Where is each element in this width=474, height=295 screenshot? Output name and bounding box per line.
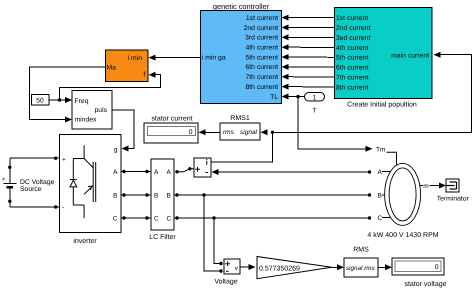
svg-text:+: + [2, 177, 6, 183]
svg-text:1: 1 [313, 95, 317, 102]
svg-text:T: T [312, 108, 316, 115]
svg-text:inverter: inverter [73, 237, 97, 245]
wire phase C to motor [174, 216, 371, 219]
inport T [305, 93, 325, 115]
svg-text:Voltage: Voltage [214, 278, 237, 286]
svg-text:6th current: 6th current [336, 65, 369, 72]
wire T to TL [282, 94, 305, 100]
wire 7th current [282, 74, 335, 80]
block Terminator [437, 179, 470, 202]
subsystem genetic controller [201, 2, 282, 104]
svg-text:Ma: Ma [107, 64, 117, 71]
svg-text:signal: signal [240, 129, 258, 136]
wire i to junction [211, 132, 273, 162]
wire 50 to f loop [60, 72, 161, 100]
svg-text:5th current: 5th current [246, 54, 279, 61]
wire 50 to Freq [49, 97, 72, 103]
svg-text:5th current: 5th current [336, 55, 369, 62]
wire main current [273, 52, 472, 133]
svg-text:C: C [167, 216, 172, 223]
svg-text:B: B [154, 193, 158, 200]
wire 8th current [282, 84, 335, 90]
svg-text:Terminator: Terminator [437, 195, 470, 202]
svg-text:3rd current: 3rd current [245, 35, 278, 42]
wire puls to g [112, 110, 134, 152]
wire gain to RMS [332, 264, 344, 270]
wire 6th current [282, 64, 335, 70]
svg-text:TL: TL [270, 94, 278, 101]
svg-text:C: C [113, 216, 118, 223]
svg-text:6th current: 6th current [246, 64, 279, 71]
svg-text:RMS: RMS [353, 247, 369, 254]
svg-text:signal rms: signal rms [346, 265, 376, 272]
wire v to gain [240, 264, 256, 270]
wire Ma to mindex [29, 67, 105, 123]
wire C tap to voltage + [214, 218, 223, 265]
svg-text:rms: rms [223, 129, 235, 136]
svg-text:C: C [154, 216, 159, 223]
svg-text:f: f [143, 71, 145, 78]
wire inverter B to LC B [121, 193, 151, 196]
svg-text:B: B [167, 193, 171, 200]
block RMS1 [220, 115, 260, 140]
wire into RMS1 signal [261, 129, 275, 135]
svg-text:1st current: 1st current [246, 15, 278, 22]
svg-text:+: + [62, 157, 66, 164]
inverter icon diode [70, 145, 84, 218]
svg-text:g: g [114, 146, 118, 153]
display stator voltage [392, 258, 447, 288]
svg-text:1st current: 1st current [336, 15, 368, 22]
wire phase A to motor [212, 169, 372, 175]
node Tm label [376, 147, 397, 165]
svg-text:stator current: stator current [151, 116, 192, 123]
wire i min ga to i min [149, 55, 202, 61]
svg-text:m: m [423, 183, 428, 190]
svg-text:Freq: Freq [75, 98, 89, 105]
block LC Filter [149, 159, 176, 241]
svg-text:0: 0 [189, 129, 193, 136]
wire 5th current [282, 54, 335, 60]
svg-text:8th current: 8th current [336, 85, 369, 92]
svg-text:50: 50 [36, 98, 44, 105]
block PWM Freq [72, 91, 112, 130]
wire T down to Tm [298, 97, 373, 152]
svg-text:7th current: 7th current [336, 75, 369, 82]
current measurement block [194, 158, 211, 177]
svg-text:A: A [378, 169, 383, 176]
svg-text:stator voltage: stator voltage [404, 280, 446, 288]
svg-text:-: - [62, 204, 64, 211]
svg-text:0.577350269: 0.577350269 [259, 266, 300, 273]
svg-text:3ed current: 3ed current [336, 35, 370, 42]
wire 2nd current [282, 25, 335, 31]
svg-text:Tm: Tm [376, 147, 385, 154]
svg-text:A: A [167, 169, 172, 176]
svg-text:A: A [154, 169, 159, 176]
svg-text:B: B [113, 193, 117, 200]
gain 0.577350269 [257, 257, 332, 279]
svg-text:i min: i min [128, 55, 143, 62]
wire RMS1 out to display [199, 129, 221, 135]
svg-text:8th current: 8th current [246, 84, 279, 91]
svg-text:0: 0 [435, 264, 439, 271]
svg-text:C: C [378, 215, 383, 222]
svg-text:puls: puls [95, 107, 108, 114]
svg-text:4th current: 4th current [246, 45, 279, 52]
svg-text:RMS1: RMS1 [230, 115, 250, 122]
constant 50 [32, 95, 50, 106]
wire m to Terminator [430, 183, 447, 189]
motor 4kW [367, 163, 438, 238]
DC voltage source [2, 157, 60, 209]
voltage measurement block [214, 259, 240, 286]
svg-text:Source: Source [20, 186, 42, 193]
wire inverter A to LC A [121, 170, 151, 173]
svg-text:LC Filter: LC Filter [149, 233, 176, 241]
subsystem Create Initial popultion [335, 8, 433, 109]
svg-text:4th current: 4th current [336, 45, 369, 52]
svg-text:7th current: 7th current [246, 74, 279, 81]
display stator current [144, 116, 198, 144]
wire 3rd current [282, 34, 335, 40]
svg-text:genetic controller: genetic controller [213, 2, 270, 11]
wire phase B to motor [174, 193, 371, 196]
block RMS [344, 247, 378, 278]
block inverter [60, 135, 122, 246]
wire B tap to voltage - [204, 195, 223, 273]
wire RMS to display [378, 264, 392, 270]
inverter icon IGBT [84, 159, 96, 203]
block i min (orange) [106, 50, 149, 82]
svg-text:main current: main current [391, 52, 429, 59]
svg-text:2nd current: 2nd current [336, 25, 370, 32]
wire inverter C to LC C [121, 216, 151, 219]
wire 1st current [282, 15, 335, 21]
svg-text:2nd current: 2nd current [244, 25, 278, 32]
svg-text:Create Initial popultion: Create Initial popultion [347, 101, 417, 109]
svg-text:i min ga: i min ga [202, 54, 226, 61]
svg-text:A: A [113, 169, 118, 176]
svg-text:mindex: mindex [75, 117, 98, 124]
wire 4th current [282, 44, 335, 50]
wire LC A to current measurement [175, 167, 194, 173]
svg-text:B: B [378, 192, 382, 199]
svg-text:4 kW 400 V 1430 RPM: 4 kW 400 V 1430 RPM [367, 231, 438, 239]
